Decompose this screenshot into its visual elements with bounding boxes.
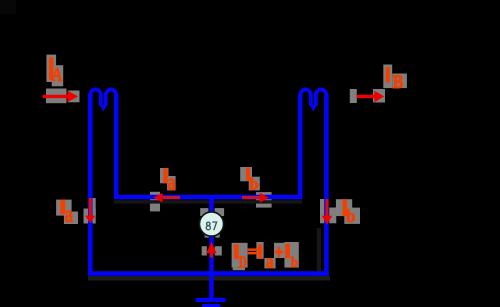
gray halo: formula block D	[274, 243, 285, 258]
CT1 secondary winding (left coil)	[90, 89, 116, 106]
gray halo: formula tail patch	[233, 268, 245, 271]
formula stem 3	[285, 244, 290, 258]
formula plus sign	[275, 251, 283, 254]
gray halo: circle bottom flank right	[215, 234, 219, 238]
gray halo: relay stub flank right	[215, 208, 225, 216]
gray halo: left down-arrow left block	[84, 209, 96, 224]
gray halo: right down-arrow block	[320, 199, 325, 223]
CT2 winding center tail tip	[310, 105, 317, 112]
arrow ia on left vertical (points down)	[85, 198, 95, 223]
formula equals sign	[248, 248, 258, 251]
svg-text:a: a	[266, 252, 274, 273]
wire: relay branch vertical	[209, 197, 214, 300]
gray halo: label IA box upper	[46, 55, 407, 271]
gray halo: left down-arrow stem side	[91, 198, 96, 216]
arrow ib on right vertical (points down)	[322, 199, 332, 225]
formula i_D = i_a + i_b	[234, 244, 298, 273]
arrow IB (top right, points right)	[357, 91, 385, 103]
gray halo: label IB box lower	[392, 74, 407, 89]
label ia (middle bus left)	[163, 168, 175, 196]
label IA	[49, 57, 63, 86]
gray halo: label ib bus upper	[240, 167, 252, 181]
gray halo: arrow IA head	[68, 91, 80, 103]
gray halo: label ib right vertical lower	[344, 208, 360, 224]
gray halo: relay stub flank left	[200, 208, 208, 216]
gray halo: label ia bus lower	[167, 176, 176, 190]
gray halo: label ia left vertical lower	[64, 212, 78, 225]
gray halo: label ia left vertical upper	[56, 200, 72, 216]
dark shadow under bottom bus	[88, 276, 330, 281]
gray halo: label ia bus upper	[160, 168, 169, 183]
label IB	[386, 67, 404, 93]
wire: left CT inner leg + middle bus + right CT inner leg	[116, 94, 300, 197]
label ib (right vertical)	[343, 199, 356, 226]
label ia (left vertical)	[60, 200, 73, 228]
gray halo: circle bottom flank left	[205, 234, 209, 238]
arrow IA (top left, points right)	[43, 91, 78, 103]
gray halo: formula block E	[284, 242, 298, 268]
relay text 87	[206, 222, 216, 230]
relay circle 87	[199, 212, 223, 236]
CT1 winding center tail tip	[100, 105, 107, 112]
arrow ia on middle bus (points left)	[153, 193, 180, 203]
arrow ib on middle bus (points right)	[242, 193, 269, 203]
gray halo: label ib right vertical upper	[336, 199, 352, 216]
gray halo: formula block B	[256, 242, 263, 259]
gray halo: up-arrow flank right	[215, 246, 222, 255]
gray halo: label IB box upper	[383, 65, 392, 89]
svg-text:a: a	[168, 170, 176, 196]
dark shadow under middle bus	[114, 200, 302, 203]
gray halo: label IA box lower	[52, 65, 64, 86]
svg-text:A: A	[52, 64, 63, 86]
formula stem 2	[258, 244, 262, 258]
gray halo: label ib bus lower	[249, 177, 260, 191]
svg-text:B: B	[393, 72, 404, 93]
gray halo: formula block C	[264, 258, 275, 268]
gray halo: arrow IA row	[46, 89, 67, 104]
CT2 secondary winding (right coil)	[300, 89, 326, 106]
svg-text:b: b	[346, 206, 355, 226]
gray halo: bus left arrowhead	[150, 192, 160, 212]
gray halo: formula block A	[232, 243, 248, 268]
label ib (middle bus right)	[246, 168, 259, 194]
wire: left CT outer leg + bottom bus + right CT outer leg	[90, 94, 326, 274]
dark shadow left of right outer leg	[317, 228, 321, 276]
ground	[196, 300, 226, 306]
svg-text:b: b	[291, 255, 298, 271]
svg-text:a: a	[65, 202, 74, 228]
arrow id below relay (points up)	[206, 242, 216, 258]
svg-text:b: b	[249, 175, 258, 194]
formula stem 1	[234, 244, 239, 258]
svg-text:D: D	[239, 252, 247, 271]
gray halo: up-arrow flank left	[202, 246, 207, 255]
gray halo: arrow IB row left stub	[350, 89, 357, 103]
gray halo: arrow IB head	[373, 89, 385, 103]
faint corner patch	[0, 0, 16, 14]
gray halo: bus right arrowhead	[256, 192, 272, 208]
gray halo: right down-arrow right block	[329, 208, 336, 224]
